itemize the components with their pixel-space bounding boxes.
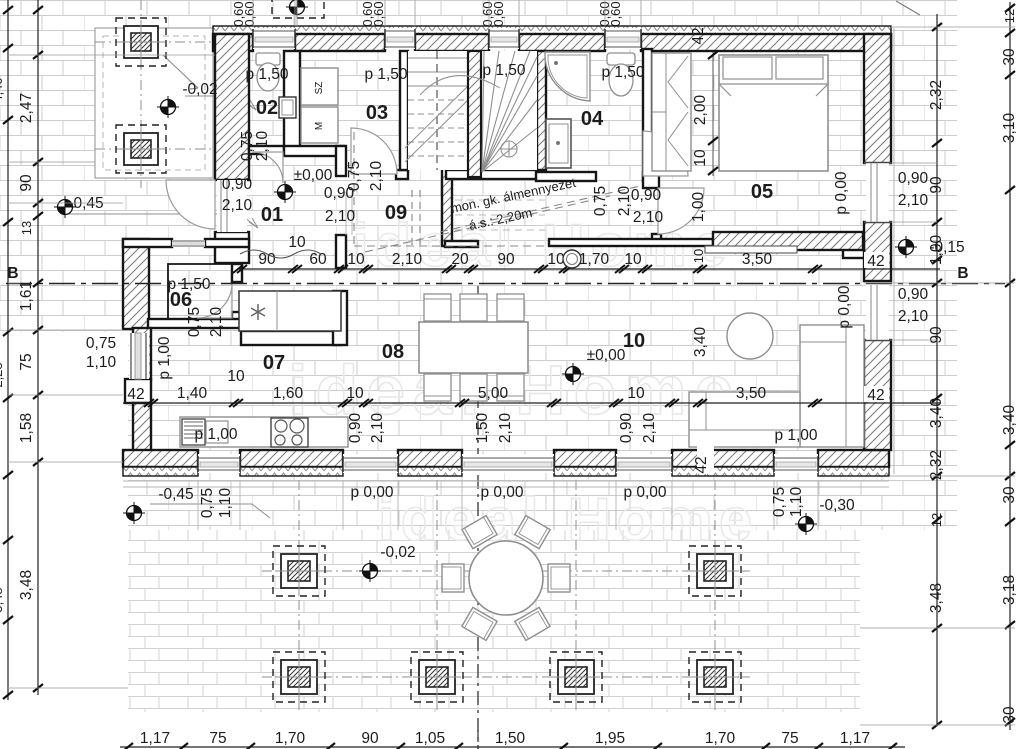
terrace column at 299,571	[273, 546, 325, 596]
svg-text:3,40: 3,40	[1001, 405, 1018, 436]
svg-text:1,00: 1,00	[690, 192, 707, 223]
porch roof arrow	[163, 55, 198, 89]
level marker at 573,374	[562, 363, 584, 385]
level marker at 370,571	[359, 560, 381, 582]
kitchen sink unit	[182, 419, 205, 445]
svg-text:42: 42	[867, 253, 884, 270]
south window 1	[198, 454, 240, 473]
corner stub at bedroom door	[643, 172, 659, 188]
landing dashed lines	[412, 190, 420, 246]
stair treads left flight dashed	[408, 99, 468, 101]
terrace axis vertical left	[298, 480, 300, 710]
svg-text:1,70: 1,70	[705, 730, 736, 747]
dining chair top	[460, 294, 487, 321]
bedroom south wall / sliding 3.50	[713, 232, 863, 250]
east facade outer face line	[893, 28, 895, 474]
terrace chair 180deg	[442, 564, 464, 592]
hall жog wall 01/03	[336, 146, 346, 176]
level marker at 168,107	[157, 96, 179, 118]
shower room 04	[545, 52, 590, 101]
svg-text:1,60: 1,60	[273, 385, 304, 402]
brick paving texture upper	[0, 0, 957, 332]
svg-text:90: 90	[18, 174, 35, 192]
svg-text:2,10: 2,10	[392, 251, 423, 268]
svg-text:0,75: 0,75	[186, 307, 203, 337]
terrace axis horizontal row1	[262, 570, 750, 572]
svg-text:75: 75	[209, 730, 226, 747]
svg-text:60: 60	[309, 251, 327, 268]
north window 2	[385, 28, 415, 49]
axis line through top-left columns vertical	[140, 0, 142, 188]
room 06 west wall	[123, 239, 149, 329]
north wall segment 3	[415, 34, 489, 51]
svg-text:10: 10	[623, 330, 645, 352]
svg-text:1,10: 1,10	[788, 487, 805, 518]
terrace axis vertical mid-left	[436, 480, 438, 710]
dining chair top	[424, 294, 451, 321]
stair circle marker	[501, 141, 517, 157]
entrance door swing arc	[166, 180, 215, 229]
step edge lines below south wall	[123, 481, 889, 487]
level marker at 906,247	[895, 236, 917, 258]
stair spine wall	[468, 51, 481, 177]
south wall pier 3	[398, 450, 462, 467]
room 06 north wall west part	[123, 239, 172, 247]
svg-text:1,10: 1,10	[217, 488, 234, 519]
kitchen west wall lower	[133, 403, 151, 452]
dining chair bottom	[460, 374, 487, 401]
north wall segment 5	[641, 34, 891, 51]
wall stairwell/bathroom 04	[537, 51, 546, 177]
north wall segment 1	[213, 34, 253, 51]
svg-text:10: 10	[346, 385, 364, 402]
svg-text:SZ: SZ	[314, 82, 325, 95]
washer SZ room 03	[301, 68, 338, 105]
door 02 arc	[252, 152, 283, 183]
level marker at 297,7	[286, 0, 308, 18]
svg-text:10: 10	[227, 368, 245, 385]
svg-text:0,90: 0,90	[222, 176, 253, 193]
stair south wall west stub	[396, 170, 408, 179]
svg-text:2,10: 2,10	[254, 131, 271, 162]
toilet room 04	[607, 53, 635, 96]
svg-text:0,90: 0,90	[898, 170, 929, 187]
interior dimension chain	[237, 268, 940, 270]
svg-text:0,90: 0,90	[618, 413, 635, 444]
svg-text:12: 12	[1002, 9, 1017, 23]
svg-text:05: 05	[751, 181, 773, 203]
svg-text:0,60: 0,60	[371, 1, 386, 26]
svg-text:1,17: 1,17	[140, 730, 170, 747]
section axis B-B	[6, 283, 1005, 285]
svg-text:p 1,50: p 1,50	[482, 62, 525, 79]
west wall upper	[215, 34, 249, 180]
door 03 arc	[351, 128, 397, 174]
svg-text:3,10: 3,10	[1001, 113, 1018, 144]
room 06 east wall upper	[232, 264, 242, 282]
brick paving texture terrace	[128, 530, 860, 712]
kitchen hob	[271, 418, 308, 447]
east wall lower	[864, 340, 891, 450]
porch column at 141,149	[116, 125, 166, 173]
wall stub between 01 and 09	[336, 235, 346, 268]
axis through top-left columns horizontal 2	[95, 148, 214, 150]
south wall pier 6	[818, 450, 889, 467]
entrance opening	[217, 180, 247, 232]
svg-text:90: 90	[928, 176, 945, 194]
svg-text:1,00: 1,00	[928, 235, 945, 266]
kitchen west wall corner block	[125, 379, 151, 403]
ceiling leader dashed diagonal	[365, 196, 610, 252]
svg-text:2,10: 2,10	[369, 413, 386, 444]
terrace axis horizontal row2	[262, 676, 750, 678]
suspended ceiling dashed boundary	[353, 132, 355, 246]
left dimension line outer	[7, 0, 9, 700]
svg-text:-0,02: -0,02	[380, 544, 415, 561]
svg-text:1,70: 1,70	[275, 730, 306, 747]
level marker at 65,207	[54, 196, 76, 218]
toilet room 02	[256, 53, 280, 91]
svg-text:30: 30	[1001, 486, 1018, 504]
squiggle break line	[240, 250, 321, 258]
terrace axis vertical centre	[477, 286, 479, 749]
svg-text:0,60: 0,60	[491, 1, 506, 26]
svg-text:2,32: 2,32	[928, 80, 945, 110]
bed dimension line	[712, 52, 714, 176]
partial column top edge	[272, 0, 324, 18]
stub below bedroom door	[652, 234, 661, 245]
stair spine wall	[442, 70, 452, 246]
svg-text:10: 10	[347, 251, 365, 268]
svg-text:5,00: 5,00	[478, 385, 509, 402]
door 06 arc	[197, 283, 232, 318]
svg-text:90: 90	[928, 326, 945, 344]
terrace axis vertical right	[714, 480, 716, 710]
svg-text:0,90: 0,90	[347, 413, 364, 444]
svg-text:B: B	[957, 265, 968, 282]
brick paving texture middle	[128, 332, 957, 530]
svg-text:13: 13	[19, 221, 34, 235]
svg-text:10: 10	[288, 234, 306, 251]
svg-text:42: 42	[127, 386, 144, 403]
svg-text:1,50: 1,50	[474, 413, 491, 444]
svg-text:3,48: 3,48	[18, 570, 35, 600]
room 06 window	[172, 240, 205, 247]
stair walk arc	[420, 76, 500, 95]
west kitchen window	[129, 333, 149, 379]
exterior north wall insulation strip	[213, 26, 891, 34]
svg-text:42: 42	[693, 456, 710, 473]
east door opening 2	[866, 285, 889, 340]
right dimension line inner	[936, 14, 938, 725]
bathroom 04 south wall west	[536, 172, 596, 181]
svg-text:p 0,00: p 0,00	[836, 285, 853, 328]
svg-text:p 1,50: p 1,50	[601, 64, 644, 81]
svg-text:2,47: 2,47	[18, 93, 35, 123]
svg-text:-0,30: -0,30	[819, 497, 855, 514]
svg-text:12: 12	[929, 513, 944, 527]
svg-text:0,75: 0,75	[346, 161, 363, 191]
room 06 interior outline	[168, 264, 232, 319]
washbasin room 04	[546, 119, 571, 168]
wall stub kitchen/dining	[333, 291, 347, 345]
right dimension line outer	[1009, 2, 1011, 730]
dining chair bottom	[424, 374, 451, 401]
svg-text:p 1,00: p 1,00	[156, 336, 173, 379]
stair break diagonal	[405, 84, 470, 162]
svg-text:2,10: 2,10	[325, 208, 356, 225]
door bedroom 05 arc	[658, 188, 704, 234]
south window 3	[462, 454, 554, 473]
south window 4	[616, 454, 672, 473]
leader arrow -0,02 upper	[185, 96, 256, 110]
svg-text:3,18: 3,18	[1001, 575, 1018, 605]
stair winder treads	[482, 51, 484, 172]
svg-text:p 1,50: p 1,50	[364, 66, 407, 83]
svg-text:0,75: 0,75	[199, 488, 216, 518]
terrace chair 60deg	[515, 607, 550, 640]
svg-text:3,40: 3,40	[928, 398, 945, 429]
svg-text:3,50: 3,50	[742, 251, 773, 268]
north wall segment 4	[519, 34, 605, 51]
round terrace table	[469, 541, 543, 615]
fridge snowflake	[251, 304, 265, 320]
south wall pier 4	[554, 450, 616, 467]
svg-text:2,10: 2,10	[898, 308, 929, 325]
porch slab entrance area	[95, 28, 213, 178]
svg-text:1,61: 1,61	[18, 281, 35, 311]
door 04 arc	[643, 131, 688, 176]
svg-text:0,75: 0,75	[592, 186, 609, 216]
pillows	[723, 57, 772, 79]
svg-text:3,50: 3,50	[736, 385, 767, 402]
leader arrow -0,45 bottom	[150, 504, 270, 518]
svg-text:07: 07	[263, 352, 285, 374]
kitchen lower counter	[180, 417, 348, 447]
corridor south wall	[549, 239, 713, 246]
svg-text:5,48: 5,48	[0, 587, 5, 612]
svg-text:75: 75	[781, 730, 798, 747]
terrace chair 120deg	[462, 607, 497, 640]
svg-text:0,90: 0,90	[631, 187, 662, 204]
svg-text:2,00: 2,00	[692, 95, 709, 126]
svg-text:3,48: 3,48	[928, 583, 945, 613]
svg-text:01: 01	[261, 204, 283, 226]
svg-text:1,50: 1,50	[495, 730, 526, 747]
svg-text:08: 08	[382, 341, 404, 363]
north wall segment 2	[295, 34, 385, 51]
sliding door bedroom 3.50 leaf	[705, 246, 797, 253]
west wall stub below entrance	[215, 232, 249, 263]
svg-text:p 1,50: p 1,50	[167, 276, 210, 293]
svg-text:2,10: 2,10	[616, 186, 633, 217]
east door opening 1	[866, 163, 889, 222]
svg-text:2,10: 2,10	[208, 307, 225, 338]
blanket	[719, 84, 828, 96]
south wall pier 5	[672, 450, 774, 467]
terrace column at 715,677	[689, 652, 741, 702]
bedroom wardrobe	[652, 53, 691, 171]
svg-text:10: 10	[692, 149, 709, 167]
svg-text:-0,45: -0,45	[158, 486, 193, 503]
hall 09 south wall stub	[445, 241, 478, 247]
double bed bedroom 05	[719, 55, 828, 171]
room 06 east wall stub	[232, 312, 242, 324]
washbasin room 02	[279, 97, 296, 118]
svg-text:42: 42	[867, 387, 884, 404]
south wall pier 1	[123, 450, 198, 467]
svg-text:10: 10	[627, 385, 645, 402]
svg-text:1,58: 1,58	[18, 413, 35, 443]
dryer M room 03	[301, 107, 338, 143]
svg-text:3,40: 3,40	[692, 327, 709, 358]
stair treads left flight solid	[408, 57, 468, 59]
svg-text:0,90: 0,90	[898, 286, 929, 303]
svg-text:4,40: 4,40	[0, 77, 5, 102]
level marker at 285,192	[274, 181, 296, 203]
room 03 south wall	[284, 146, 344, 156]
svg-text:-0,02: -0,02	[182, 81, 217, 98]
svg-text:75: 75	[18, 353, 35, 370]
kitchen north wall	[241, 331, 341, 345]
kitchen west wall upper	[133, 328, 151, 380]
level marker at 134,513	[123, 502, 145, 524]
svg-text:p 0,00: p 0,00	[833, 171, 850, 214]
terrace chair 240deg	[462, 516, 497, 549]
north window 4	[605, 28, 641, 49]
east wall wing at bedroom wall	[843, 239, 864, 258]
terrace axis vertical mid-right	[575, 480, 577, 710]
wall between 02 and 03	[284, 51, 300, 149]
svg-text:B: B	[7, 265, 18, 282]
terrace column at 437,677	[411, 652, 463, 702]
dining chair top	[497, 294, 524, 321]
svg-text:p 1,00: p 1,00	[194, 426, 237, 443]
svg-text:ideal Home: ideal Home	[378, 486, 758, 553]
svg-text:90: 90	[361, 730, 379, 747]
svg-text:1,05: 1,05	[415, 730, 445, 747]
terrace chair 300deg	[515, 516, 550, 549]
svg-text:0,75: 0,75	[86, 335, 116, 352]
sofa vertical part	[800, 325, 864, 447]
svg-text:2,10: 2,10	[368, 161, 385, 192]
east wall middle block	[864, 222, 891, 281]
svg-text:0,75: 0,75	[771, 487, 788, 517]
stair-bathroom south wall	[446, 170, 545, 179]
left dimension line inner	[37, 0, 39, 695]
svg-text:2,10: 2,10	[497, 413, 514, 444]
stairwell floor	[408, 51, 537, 170]
lower interior dimension chain	[123, 402, 940, 404]
stair dashed centre line	[436, 51, 438, 170]
svg-text:1,40: 1,40	[177, 385, 208, 402]
level marker at 806,524	[795, 513, 817, 535]
svg-text:90: 90	[497, 251, 515, 268]
svg-text:10: 10	[691, 249, 706, 263]
svg-text:±0,00: ±0,00	[587, 347, 626, 364]
bottom centre axis tick	[477, 730, 479, 749]
terrace chair 0deg	[548, 564, 570, 592]
south window 2	[343, 454, 398, 473]
bottom dimension line	[120, 746, 905, 748]
svg-text:p 0,00: p 0,00	[623, 484, 666, 501]
wall between 03 and stairwell	[400, 51, 408, 170]
svg-text:p 1,00: p 1,00	[774, 427, 817, 444]
svg-text:p 1,50: p 1,50	[245, 66, 288, 83]
svg-text:-0,45: -0,45	[68, 195, 103, 212]
column symbol on chain	[563, 250, 581, 268]
svg-text:1,17: 1,17	[840, 730, 870, 747]
top extension lines	[252, 0, 254, 26]
sofa horizontal part	[689, 392, 800, 447]
svg-text:±0,00: ±0,00	[294, 167, 333, 184]
svg-text:30: 30	[1001, 706, 1018, 724]
wall between 04 and bedroom 05	[643, 49, 652, 181]
svg-text:2,10: 2,10	[633, 209, 664, 226]
svg-text:p 0,00: p 0,00	[480, 484, 523, 501]
hall cabinet with fridge	[239, 291, 341, 331]
terrace column at 299,677	[273, 652, 325, 702]
leader arrow -0,45 left	[62, 214, 258, 228]
svg-text:0,60: 0,60	[608, 1, 623, 26]
south wall pier 2	[240, 450, 343, 467]
svg-text:42: 42	[690, 27, 707, 44]
terrace column at 576,677	[550, 652, 602, 702]
svg-text:02: 02	[256, 97, 278, 119]
room 02 south wall west part	[249, 146, 284, 154]
terrace column at 715,571	[689, 546, 741, 596]
east wall upper	[864, 34, 891, 163]
axis through top-left columns horizontal 1	[95, 41, 214, 43]
svg-text:04: 04	[581, 108, 604, 130]
svg-text:p 0,00: p 0,00	[350, 484, 393, 501]
svg-text:1,70: 1,70	[579, 251, 610, 268]
porch column at 141,42	[116, 18, 166, 66]
svg-text:0,60: 0,60	[242, 1, 257, 26]
room 06 south wall	[148, 319, 242, 328]
svg-text:2,10: 2,10	[898, 192, 929, 209]
room 06 north wall east part	[205, 239, 249, 247]
window projection lines to terrace	[197, 480, 199, 530]
north window 3	[489, 28, 519, 49]
roof slope arrow top right	[896, 1, 920, 15]
svg-text:09: 09	[385, 202, 407, 224]
svg-text:2,23: 2,23	[0, 362, 5, 387]
svg-text:2,10: 2,10	[641, 413, 658, 444]
dining table	[419, 322, 528, 373]
svg-text:2,10: 2,10	[222, 197, 253, 214]
svg-text:2,32: 2,32	[928, 450, 945, 480]
dining chair bottom	[497, 374, 524, 401]
svg-text:03: 03	[366, 102, 388, 124]
opening 01-09 threshold	[346, 192, 352, 235]
svg-text:1,95: 1,95	[595, 730, 625, 747]
living room pouf	[727, 313, 773, 359]
svg-text:1,10: 1,10	[86, 354, 117, 371]
svg-text:M: M	[314, 122, 325, 130]
south window 5	[774, 454, 818, 473]
svg-text:30: 30	[1001, 48, 1018, 66]
north window 1	[253, 28, 295, 49]
